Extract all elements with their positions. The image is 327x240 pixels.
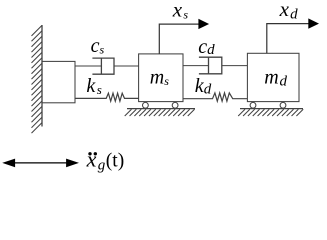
svg-text:ks: ks	[86, 75, 101, 97]
damper C d piston	[208, 57, 210, 74]
arrow x s	[159, 24, 199, 54]
svg-text:md: md	[264, 66, 287, 89]
mass m d box	[247, 53, 299, 101]
svg-text:ms: ms	[150, 66, 169, 88]
svg-text:g: g	[98, 158, 106, 174]
svg-text:xs: xs	[172, 0, 189, 22]
damper C s cylinder	[92, 58, 114, 74]
ground hatching under m s	[125, 109, 195, 116]
roller under m s left	[143, 102, 149, 108]
arrow x d	[267, 24, 310, 54]
mass m s box	[139, 54, 183, 102]
svg-text:(t): (t)	[106, 150, 124, 171]
arrowhead x d	[308, 18, 319, 28]
damper C d cylinder	[199, 57, 222, 74]
svg-text:kd: kd	[195, 75, 212, 97]
ground motion double arrow	[4, 159, 77, 166]
ground hatching under m d	[238, 109, 303, 116]
svg-text:x: x	[86, 146, 97, 171]
spring K s	[76, 93, 139, 101]
damper C s rod right	[114, 65, 139, 67]
wall line	[41, 25, 43, 127]
damper C d rod left	[183, 65, 209, 67]
spring K d	[183, 93, 247, 101]
double dots over x	[88, 152, 91, 155]
roller under m s right	[172, 102, 178, 108]
wall hatching	[32, 25, 43, 133]
damper C d rod right	[222, 65, 248, 67]
svg-text:cs: cs	[91, 35, 105, 57]
damper C s piston	[100, 58, 102, 74]
ground line under m d	[240, 108, 303, 110]
roller under m d left	[250, 102, 256, 108]
svg-text:cd: cd	[198, 36, 215, 58]
damper C s rod left	[76, 65, 102, 67]
roller under m d right	[280, 102, 286, 108]
arrowhead x s	[198, 19, 209, 29]
ground line under m s	[127, 108, 195, 110]
svg-text:xd: xd	[279, 0, 299, 22]
label x-double-dot g (t) : ground acceleration	[86, 146, 125, 173]
wall bracket block	[42, 61, 75, 102]
